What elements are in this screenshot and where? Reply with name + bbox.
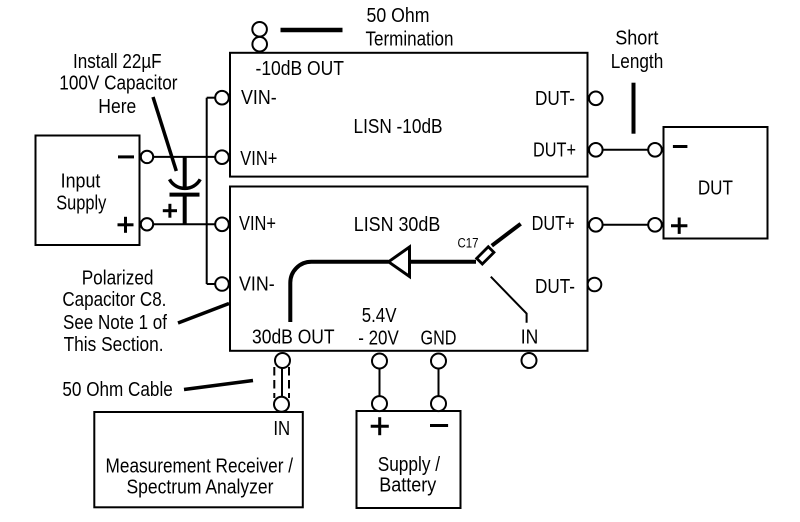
- svg-text:30dB OUT: 30dB OUT: [252, 327, 335, 349]
- svg-text:Length: Length: [611, 51, 664, 73]
- svg-text:C17: C17: [458, 236, 479, 251]
- svg-text:DUT-: DUT-: [535, 88, 575, 110]
- svg-text:See Note 1 of: See Note 1 of: [63, 312, 167, 334]
- svg-text:DUT-: DUT-: [535, 276, 575, 298]
- svg-text:LISN -10dB: LISN -10dB: [354, 116, 443, 138]
- svg-text:Input: Input: [61, 170, 101, 192]
- svg-text:100V Capacitor: 100V Capacitor: [59, 73, 177, 95]
- svg-text:VIN-: VIN-: [239, 273, 275, 295]
- svg-text:- 20V: - 20V: [358, 328, 399, 350]
- svg-text:IN: IN: [521, 327, 539, 349]
- svg-text:Supply /: Supply /: [378, 454, 441, 476]
- svg-text:Termination: Termination: [366, 28, 454, 50]
- svg-text:GND: GND: [421, 327, 457, 349]
- svg-text:Measurement Receiver /: Measurement Receiver /: [106, 456, 294, 478]
- svg-text:Supply: Supply: [56, 192, 106, 214]
- svg-text:This Section.: This Section.: [64, 334, 164, 356]
- svg-text:IN: IN: [273, 418, 290, 440]
- svg-text:VIN-: VIN-: [241, 87, 277, 109]
- svg-text:VIN+: VIN+: [240, 148, 277, 170]
- svg-text:LISN 30dB: LISN 30dB: [354, 214, 441, 236]
- svg-text:Here: Here: [98, 96, 136, 118]
- svg-text:-10dB OUT: -10dB OUT: [256, 58, 345, 80]
- svg-text:50 Ohm Cable: 50 Ohm Cable: [62, 379, 172, 401]
- svg-text:Spectrum Analyzer: Spectrum Analyzer: [127, 476, 274, 498]
- svg-text:Battery: Battery: [379, 475, 436, 497]
- svg-text:VIN+: VIN+: [239, 213, 276, 235]
- svg-text:Capacitor C8.: Capacitor C8.: [62, 289, 166, 311]
- svg-text:5.4V: 5.4V: [362, 305, 397, 327]
- svg-text:DUT: DUT: [698, 178, 733, 200]
- svg-text:DUT+: DUT+: [532, 213, 575, 235]
- svg-text:Polarized: Polarized: [82, 268, 154, 290]
- svg-text:Short: Short: [615, 27, 659, 49]
- svg-text:50 Ohm: 50 Ohm: [367, 5, 430, 27]
- svg-text:Install 22µF: Install 22µF: [73, 51, 162, 73]
- svg-text:DUT+: DUT+: [533, 139, 576, 161]
